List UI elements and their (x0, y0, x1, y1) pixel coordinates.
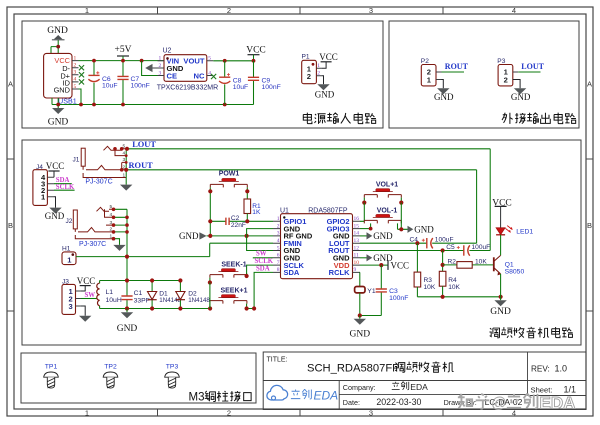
svg-text:1: 1 (277, 216, 280, 222)
power flag VCC (U2 output) (246, 45, 266, 60)
wire P3 LOUT (518, 71, 540, 73)
wire Y1 to GND (359, 293, 361, 316)
ground flag U1 left (179, 231, 273, 241)
power flag +5V (115, 45, 132, 60)
svg-text:3: 3 (159, 70, 162, 76)
Sheet field (531, 385, 577, 395)
node junctions bottom rail (56, 103, 226, 107)
wire VOL buttons right legs to GND (398, 203, 408, 230)
node junction R2 branch (441, 263, 445, 267)
resistor R3 10K (414, 243, 436, 297)
connector J4 (33, 164, 54, 206)
svg-text:GND: GND (47, 26, 68, 36)
connector USB1 (44, 53, 79, 105)
Date field (343, 397, 422, 407)
svg-text:VCC: VCC (77, 276, 96, 286)
wire U1 pin8 SDA to SEEK+1 (247, 272, 273, 308)
net label ROUT (P2) (445, 62, 469, 71)
wire U1 pin14 GND stub (360, 235, 367, 237)
svg-text:15: 15 (354, 223, 360, 229)
svg-text:100nF: 100nF (389, 295, 408, 302)
wire GPIO3 to VOL-1 (360, 228, 371, 230)
svg-text:10uH: 10uH (106, 297, 122, 304)
test point TP2 (103, 364, 118, 388)
ground flag J3 (79, 316, 91, 322)
title label (267, 356, 288, 363)
svg-text:10: 10 (354, 260, 360, 266)
node junctions VOL-1 (369, 227, 404, 232)
sheet title SCH_RDA5807FP调频收音机 (307, 361, 454, 374)
svg-text:U2: U2 (163, 48, 172, 55)
capacitor C2 22nF (210, 215, 273, 229)
zone tick marks left/right (7, 159, 593, 311)
svg-text:4: 4 (208, 70, 211, 76)
wire J3 pin1 to VCC (81, 286, 85, 291)
svg-text:VOL-1: VOL-1 (377, 208, 398, 215)
svg-text:1N4148: 1N4148 (188, 297, 210, 304)
no-connect X on D- (79, 65, 84, 70)
svg-text:CE: CE (167, 71, 178, 80)
capacitor C7 100nF (117, 61, 149, 105)
wire J3 SW (81, 298, 97, 300)
watermark 知乎@立创EDA (458, 393, 576, 412)
svg-text:TPXC6219B332MR: TPXC6219B332MR (157, 84, 218, 91)
wire RCLK to Y1 (359, 272, 361, 286)
svg-text:SDA: SDA (256, 265, 270, 272)
svg-text:3: 3 (277, 231, 280, 237)
power flag VCC (LED) (492, 198, 512, 227)
svg-text:R4: R4 (448, 277, 457, 284)
net label SW (J3) (85, 292, 96, 299)
regulator U2 TPXC6219B332MR (157, 48, 218, 92)
svg-text:5: 5 (74, 84, 77, 90)
svg-text:PJ-307C: PJ-307C (85, 179, 112, 186)
svg-text:@: @ (491, 395, 507, 412)
capacitor C6 10uF (88, 61, 117, 105)
svg-text:GND: GND (350, 329, 371, 339)
svg-text:3: 3 (68, 302, 72, 311)
wire USB top shield loop (51, 40, 58, 54)
svg-text:2: 2 (227, 408, 231, 417)
svg-text:S8050: S8050 (505, 268, 525, 275)
diode D1 1N4148 (148, 281, 182, 309)
ground flag J2 (113, 245, 125, 251)
wire tank bottom rail (GND) (100, 308, 211, 310)
svg-text:1: 1 (159, 56, 162, 62)
svg-text:C2: C2 (231, 215, 240, 222)
ground flag P1 (315, 84, 335, 99)
svg-text:10K: 10K (424, 284, 436, 291)
svg-text:2: 2 (74, 63, 77, 69)
ground flag J1 (120, 185, 132, 191)
node junctions J2 (112, 208, 129, 241)
svg-text:10K: 10K (475, 258, 487, 265)
wire FMIN bus to tank (126, 257, 128, 281)
svg-text:10uF: 10uF (102, 83, 118, 90)
net label SW (U1) (256, 251, 267, 258)
power flag VCC (J3) (77, 276, 96, 286)
wire LED to Q1 collector (500, 235, 502, 256)
net label SCLK (J4) (56, 184, 75, 191)
resistor R4 10K (439, 251, 460, 297)
svg-text:10K: 10K (448, 284, 460, 291)
antenna pad H1 (62, 245, 76, 264)
svg-text:R2: R2 (448, 258, 457, 265)
connector P1 (302, 54, 323, 84)
svg-text:A: A (8, 80, 13, 89)
svg-text:1: 1 (317, 63, 320, 69)
wire emitter bottom rail (417, 296, 500, 298)
svg-text:3: 3 (369, 6, 373, 15)
svg-text:LED1: LED1 (516, 229, 533, 236)
svg-text:USB1: USB1 (58, 96, 77, 105)
node junction usb top (56, 45, 60, 49)
svg-text:10uF: 10uF (233, 84, 249, 91)
Company field (343, 382, 428, 392)
svg-text:11: 11 (354, 253, 360, 259)
svg-text:GND: GND (511, 92, 531, 102)
svg-text:B: B (587, 221, 592, 230)
svg-text:1.0: 1.0 (555, 364, 568, 374)
block label 电源输入电路 (303, 113, 376, 124)
svg-text:GND: GND (54, 86, 70, 95)
wire U1 pin5 riser (247, 236, 273, 251)
svg-text:1: 1 (74, 55, 77, 61)
node junctions tank (125, 278, 212, 310)
wire POW1 left leg (209, 187, 211, 236)
wire CE bracket (142, 61, 158, 76)
node junctions top rail (92, 59, 143, 63)
block box: power input circuit (22, 21, 383, 128)
wire P2 pin1 to GND (442, 80, 444, 89)
svg-text:SCLK: SCLK (255, 258, 274, 265)
pushbutton VOL+1 (364, 182, 401, 198)
svg-text:100uF: 100uF (435, 237, 454, 244)
node junctions bottom rail (441, 295, 503, 299)
pushbutton SEEK+1 (210, 288, 248, 304)
node junction FMIN/J2 (125, 255, 129, 259)
wire Q1 emitter to GND (500, 274, 502, 300)
audio jack J1 PJ-307C (73, 144, 127, 186)
svg-text:+5V: +5V (115, 45, 132, 55)
wire USB bottom stubs (52, 98, 58, 105)
svg-text:LOUT: LOUT (521, 62, 544, 71)
svg-text:2: 2 (277, 223, 280, 229)
block box: FM radio circuit (22, 140, 581, 345)
wire U1 pin7 SCLK to SEEK-1 (247, 265, 273, 276)
net label LOUT (P3) (521, 62, 544, 71)
wire J3 pin3 to GND (81, 306, 85, 316)
svg-text:ROUT: ROUT (129, 161, 154, 170)
capacitor C4 100uF (410, 237, 454, 249)
svg-text:PJ-307C: PJ-307C (79, 241, 106, 248)
svg-text:5: 5 (208, 56, 211, 62)
block box: M3 standoff block (21, 353, 256, 403)
wire SEEK buttons left bus (209, 283, 211, 309)
wire LOUT line pin13 (360, 242, 477, 244)
wire SEEK-1 legs (210, 273, 247, 283)
wire P2 ROUT (442, 71, 465, 73)
svg-text:SEEK-1: SEEK-1 (221, 262, 246, 269)
svg-text:REV:: REV: (531, 365, 550, 374)
svg-text:J1: J1 (73, 156, 80, 163)
wire +5V top rail (79, 60, 165, 62)
wire J4 pin1 to GND (54, 197, 56, 208)
svg-text:VCC: VCC (246, 45, 266, 55)
svg-text:VOL+1: VOL+1 (376, 182, 398, 189)
ground flag U1 pin11 (367, 253, 394, 263)
svg-text:VOUT: VOUT (183, 57, 204, 66)
svg-text:2: 2 (504, 76, 508, 85)
capacitor C8 10uF (219, 61, 248, 105)
svg-text:3: 3 (74, 70, 77, 76)
block label 调频收音机电路 (489, 327, 572, 338)
pushbutton POW1 (210, 171, 247, 188)
wire SEEK+1 legs (210, 304, 247, 309)
net label SCLK (U1) (255, 258, 274, 265)
svg-text:1: 1 (85, 408, 89, 417)
ground flag Q1 (490, 300, 511, 317)
svg-text:GND: GND (45, 211, 65, 221)
zone number 1 top (85, 6, 516, 15)
svg-text:SEEK+1: SEEK+1 (220, 288, 247, 295)
connector P3 (497, 58, 518, 86)
svg-text:B: B (8, 221, 13, 230)
wire USB pin5 to rail (79, 89, 82, 105)
svg-text:VCC: VCC (391, 260, 410, 270)
svg-text:J2: J2 (66, 218, 73, 225)
svg-text:4: 4 (277, 238, 280, 244)
svg-text:GND: GND (315, 90, 335, 100)
EasyEDA logo cloud (267, 385, 288, 400)
ground flag below USB1 (48, 105, 69, 128)
wire J2 bus (FMIN) (126, 209, 128, 256)
wire J4 pin4 to VCC (53, 171, 55, 177)
net label ROUT (J1) (129, 161, 154, 170)
resistor R2 10K (443, 258, 494, 268)
svg-text:M3: M3 (189, 391, 205, 403)
net label LOUT (J1) (132, 140, 156, 149)
transistor Q1 S8050 (494, 255, 525, 275)
ground flag P2 (434, 88, 454, 102)
wire tank top rail (100, 280, 181, 282)
svg-text:EDA: EDA (410, 382, 428, 392)
wire LOUT net (J1 to C5 loop) (129, 149, 491, 251)
svg-text:TP1: TP1 (45, 364, 58, 371)
svg-text:C1: C1 (134, 290, 143, 297)
inductor L1 10uH (97, 281, 122, 309)
svg-text:Date:: Date: (343, 398, 360, 407)
wire GND bottom rail (52, 104, 254, 106)
ground flag J4 (45, 208, 65, 222)
node junctions SEEK-1 (208, 274, 249, 285)
svg-text:P1: P1 (302, 54, 310, 61)
title block frame (263, 352, 586, 410)
test point TP1 (44, 364, 59, 388)
svg-text:LOUT: LOUT (132, 140, 156, 149)
wire J4 SDA (54, 183, 72, 185)
svg-text:100uF: 100uF (472, 244, 491, 251)
svg-text:2: 2 (317, 71, 320, 77)
svg-text:SDA: SDA (284, 268, 300, 277)
svg-text:A: A (587, 80, 592, 89)
ground symbol on U2 pin2 (145, 64, 164, 72)
audio jack J2 PJ-307C (66, 204, 114, 248)
svg-text:22nF: 22nF (231, 222, 246, 229)
svg-text:1N4148: 1N4148 (159, 297, 181, 304)
net label SDA (U1) (256, 265, 270, 272)
svg-text:2022-03-30: 2022-03-30 (376, 397, 421, 407)
svg-text:C5: C5 (446, 244, 455, 251)
svg-text:2: 2 (307, 72, 311, 81)
svg-text:EDA: EDA (540, 393, 576, 412)
no-connect X on U2 NC (211, 74, 216, 79)
no-connect X on D+ (79, 72, 84, 77)
wire ROUT line pin12 (360, 250, 490, 252)
svg-text:100nF: 100nF (262, 84, 281, 91)
pushbutton VOL-1 (364, 208, 401, 224)
svg-text:9: 9 (354, 267, 357, 273)
EasyEDA logo text 立创EDA (291, 389, 338, 403)
wire VDD to VCC (360, 264, 388, 266)
wire P3 pin2 to GND (513, 80, 520, 89)
node junctions C2/R1 (208, 219, 249, 223)
test point TP3 (165, 364, 180, 388)
wire GPIO2 to VOL+1 (360, 203, 364, 222)
node junctions C4/C5 lines (415, 241, 444, 253)
ground flag VOL buttons (408, 225, 435, 235)
node junctions J1 (113, 147, 129, 172)
svg-text:NC: NC (194, 71, 205, 80)
node junctions SEEK+1 (245, 306, 257, 310)
svg-text:4: 4 (512, 6, 516, 15)
svg-text:VCC: VCC (46, 161, 65, 171)
svg-text:R3: R3 (424, 277, 433, 284)
capacitor C1 33PF (121, 281, 149, 309)
svg-text:GND: GND (179, 231, 199, 241)
svg-text:GND: GND (414, 225, 434, 235)
capacitor C5 100uF (446, 244, 490, 256)
block label M3铜柱接口 (189, 391, 252, 404)
svg-text:Company:: Company: (343, 383, 376, 392)
svg-text:EDA: EDA (314, 389, 339, 403)
wire VOL+1 legs (364, 198, 401, 203)
wire U1 pin2 bracket (247, 229, 273, 236)
power flag VCC (P1) (319, 52, 338, 62)
wire J1 ground bus (125, 149, 127, 185)
svg-text:TITLE:: TITLE: (267, 356, 288, 363)
svg-text:SW: SW (256, 251, 267, 258)
zone tick marks top/bottom (158, 7, 444, 416)
svg-text:Y1: Y1 (367, 288, 376, 295)
wire J4 SCLK (54, 189, 75, 191)
svg-text:ROUT: ROUT (445, 62, 469, 71)
svg-text:33PF: 33PF (134, 297, 150, 304)
svg-text:1: 1 (85, 6, 89, 15)
wire POW1 right leg (246, 187, 248, 199)
pushbutton SEEK-1 (210, 262, 247, 278)
svg-text:13: 13 (354, 238, 360, 244)
ground flag Y1/C3 (350, 316, 371, 340)
block label 外接输出电路 (502, 113, 576, 124)
wire U1 pin11 GND stub (360, 257, 367, 259)
wire FMIN net (76, 243, 273, 256)
svg-text:12: 12 (354, 245, 360, 251)
ground flag U1 pin14 (367, 231, 394, 241)
ground flag above USB1 (47, 26, 68, 40)
wire P1 pin2 to GND (322, 76, 324, 84)
wire VOUT to VCC (213, 60, 253, 62)
net label SDA (J4) (56, 177, 70, 184)
svg-text:TP3: TP3 (166, 364, 179, 371)
REV field (531, 364, 567, 374)
svg-text:1: 1 (123, 172, 126, 178)
wire VOL-1 legs (371, 223, 398, 229)
wire J2 pin1 to GND (114, 239, 120, 245)
node junctions VOL+1 (362, 201, 403, 205)
no-connect X on ID (79, 79, 84, 84)
block box: external output circuit (389, 21, 579, 128)
svg-text:GND: GND (434, 92, 454, 102)
svg-text:14: 14 (354, 231, 360, 237)
diode D2 1N4148 (176, 281, 211, 309)
power flag VCC (J4) (46, 161, 65, 171)
capacitor C9 100nF (248, 61, 281, 105)
wires J2 pins to bus (114, 209, 128, 232)
capacitor C3 100nF (360, 265, 409, 315)
svg-text:1K: 1K (252, 209, 261, 216)
node junction VDD/C3 (379, 263, 383, 267)
svg-text:100nF: 100nF (131, 83, 150, 90)
wire ROUT net (J1 to C4 loop) (127, 170, 477, 243)
Drawn By field (444, 397, 523, 407)
wire P1 pin1 to VCC (322, 62, 326, 69)
svg-text:SCLK: SCLK (56, 184, 75, 191)
svg-text:TP2: TP2 (104, 364, 117, 371)
svg-text:GND: GND (373, 231, 393, 241)
node junctions POW1 (208, 189, 249, 193)
IC U1 RDA5807FP (273, 207, 360, 278)
svg-text:RCLK: RCLK (329, 268, 350, 277)
svg-text:2: 2 (227, 6, 231, 15)
connector J3 (62, 279, 81, 315)
wire U1 pin6 SW stub (253, 257, 273, 259)
node junction Y1/C3 GND (358, 313, 362, 317)
svg-text:VCC: VCC (319, 52, 338, 62)
svg-text:16: 16 (354, 216, 360, 222)
svg-text:Q1: Q1 (505, 261, 514, 268)
zone letters right (587, 80, 592, 231)
crystal Y1 (355, 287, 376, 296)
svg-text:GND: GND (490, 307, 511, 317)
ground flag P3 (511, 88, 531, 102)
node junction VOUT/C8 (223, 59, 256, 63)
svg-text:6: 6 (277, 253, 280, 259)
svg-text:7: 7 (277, 260, 280, 266)
svg-text:POW1: POW1 (219, 171, 240, 178)
node junctions GND wire (208, 234, 249, 238)
svg-text:GND: GND (117, 324, 138, 334)
connector P2 (421, 58, 442, 86)
svg-text:GND: GND (48, 117, 69, 127)
ground flag tank (117, 309, 138, 335)
svg-text:5: 5 (277, 245, 280, 251)
power flag VCC (VDD) (388, 260, 409, 270)
LED LED1 (496, 226, 533, 236)
svg-text:SW: SW (85, 292, 96, 299)
resistor R1 1K (244, 199, 261, 221)
zone letters left (8, 80, 13, 231)
